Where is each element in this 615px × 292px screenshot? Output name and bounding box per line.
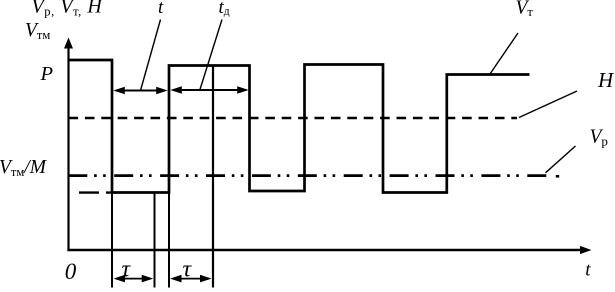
svg-text:H: H <box>597 68 615 92</box>
leader line for label Vt <box>490 33 518 74</box>
svg-text:0: 0 <box>65 259 77 284</box>
leader line for label H <box>519 91 577 118</box>
measurement vertical at x=213 through second pulse <box>212 66 214 288</box>
svg-text:P: P <box>40 63 54 85</box>
measurement vertical at x=112 (first pulse trailing edge extension) <box>111 193 113 288</box>
dash-dot-dot level line Vtm/M <box>68 174 547 177</box>
svg-text:t: t <box>158 0 164 18</box>
interval arrow t (between pulse 1 and pulse 2) <box>113 87 167 94</box>
interval arrow tau 2 <box>170 275 212 283</box>
svg-text:τ: τ <box>183 257 193 283</box>
leader line for label t <box>141 20 161 91</box>
svg-text:t: t <box>585 260 591 281</box>
interval arrow t_d (width of pulse 2) <box>170 86 248 93</box>
interval arrow tau 1 <box>114 275 154 283</box>
leader line for label t_d <box>200 20 223 92</box>
leader line for label Vp <box>546 146 576 173</box>
svg-text:τ: τ <box>122 257 132 283</box>
svg-text:Vтм/M: Vтм/M <box>0 157 48 179</box>
x-axis <box>67 249 581 251</box>
dashed level line H <box>69 117 518 120</box>
y-axis <box>67 44 69 251</box>
y-axis arrowhead <box>64 38 73 49</box>
svg-text:Vр, Vт, H: Vр, Vт, H <box>32 0 104 18</box>
x-axis arrowhead <box>580 246 592 254</box>
trailing dot of dash-dot-dot line <box>556 175 559 178</box>
measurement vertical at x=154.5 <box>154 192 156 288</box>
waveform Vt pulses (solid) <box>70 60 530 193</box>
measurement vertical at x=169 (second pulse leading edge extension) <box>168 193 170 288</box>
dashed low-level segment left of first pulse <box>79 191 113 193</box>
